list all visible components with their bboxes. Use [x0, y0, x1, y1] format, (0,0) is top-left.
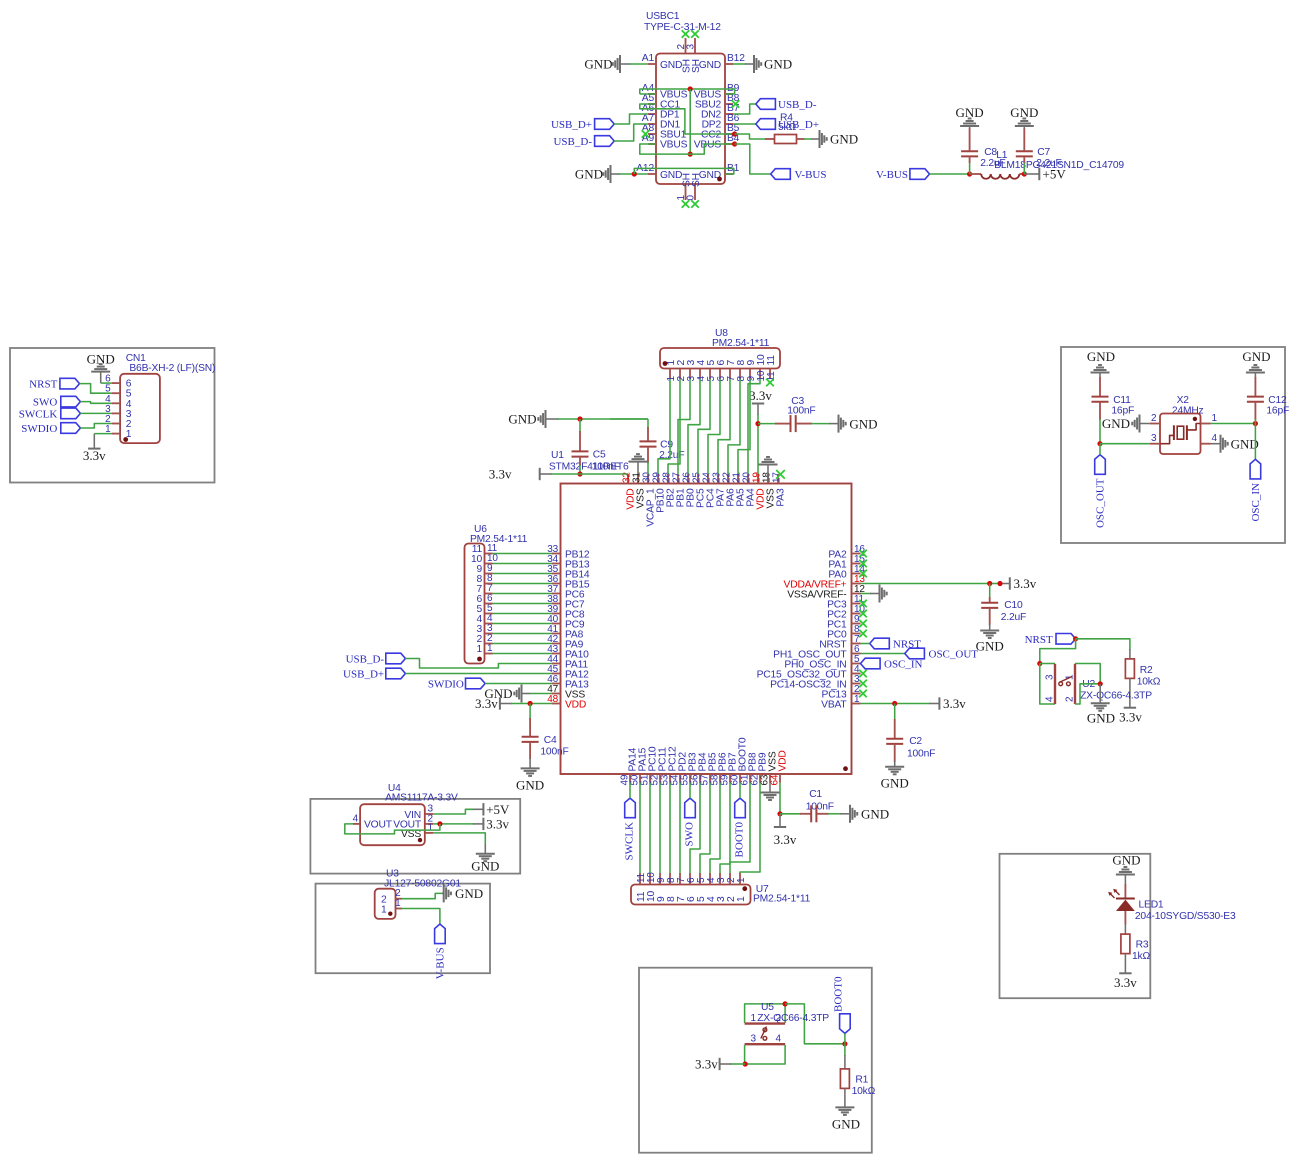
wire U5 top loop — [745, 1004, 786, 1023]
no-connect SH1 — [682, 200, 690, 208]
power symbol GND at B12 — [754, 55, 792, 73]
power symbol GND on U1 pin 31 — [629, 454, 648, 474]
pushbutton U5 ZX-QC66-4.3TP — [745, 1002, 830, 1045]
svg-text:1: 1 — [1212, 413, 1218, 424]
wire A12 to GND — [611, 173, 648, 175]
wire NRST to CN1 pin 5 — [80, 384, 113, 394]
svg-text:2.2uF: 2.2uF — [1001, 612, 1026, 623]
wire V-BUS to C8 node — [930, 173, 970, 175]
wire U6 pin 9 to U1 pin 35 — [493, 573, 553, 575]
power symbol GND at R4 — [820, 130, 859, 148]
svg-text:1: 1 — [428, 823, 434, 834]
frame boot box — [639, 968, 872, 1153]
svg-text:GND: GND — [764, 57, 792, 72]
net flag NRST (CN1) — [29, 378, 79, 390]
svg-text:3.3v: 3.3v — [1014, 576, 1037, 591]
pin-1 marker U7 — [742, 886, 747, 891]
svg-text:R1: R1 — [855, 1075, 868, 1086]
junction VBUS bottom — [688, 152, 693, 157]
junction A12 — [632, 171, 637, 176]
wire U4 VSS to GND — [433, 833, 485, 854]
svg-text:GND: GND — [1231, 437, 1259, 452]
no-connect A8 — [642, 130, 650, 138]
pin-1 marker U4 — [418, 838, 422, 842]
svg-text:5: 5 — [476, 604, 482, 615]
svg-text:2: 2 — [1065, 696, 1076, 702]
wire U8 pin 10 to U1 pin 20 — [748, 379, 760, 474]
svg-text:NRST: NRST — [1025, 634, 1053, 646]
svg-text:10: 10 — [646, 872, 657, 883]
svg-text:GND: GND — [830, 132, 858, 147]
power symbol 3.3v at VBAT — [939, 696, 966, 711]
net flag OSC_OUT (crystal) — [1095, 455, 1107, 528]
wire OSC_OUT node to X2 pin 3 — [1100, 443, 1150, 445]
net flag SWCLK (MCU) — [624, 798, 636, 860]
wire U4 VOUT to 3.3v — [433, 823, 483, 825]
pin header U6 PM2.54-1*11 — [465, 524, 528, 664]
svg-text:0: 0 — [686, 195, 697, 201]
wire R2 to 3.3v — [1129, 678, 1131, 707]
svg-text:USB_D-: USB_D- — [346, 654, 385, 666]
wire U3 pin1 to V-BUS — [402, 909, 440, 925]
no-connect U1 pin 8 — [859, 630, 867, 638]
power symbol GND on U1 pin 18 — [759, 457, 778, 482]
wire U1 pin 62 to U7 pin 1 — [740, 783, 760, 874]
svg-text:GND: GND — [508, 412, 536, 427]
svg-text:2: 2 — [726, 877, 737, 883]
junction C8 node — [967, 171, 972, 176]
svg-text:USBC1: USBC1 — [646, 11, 680, 22]
wire U1 pin 61 to U7 pin 2 — [730, 783, 750, 874]
svg-text:9: 9 — [476, 564, 482, 575]
svg-text:4: 4 — [1045, 696, 1056, 702]
junction C1 node — [777, 811, 782, 816]
wire VBUS A4-B9 — [640, 89, 735, 94]
wire SWO to CN1 pin 4 — [80, 402, 112, 404]
crystal X2 24MHz — [1150, 395, 1218, 454]
net flag SWO (MCU) — [684, 798, 696, 846]
svg-text:B12: B12 — [727, 53, 745, 64]
inductor L1 BLM18PG421SN1D_C14709 — [970, 150, 1125, 179]
wire U6 pin 11 to U1 pin 33 — [493, 553, 553, 555]
svg-text:1: 1 — [476, 644, 482, 655]
wire VDDA to 3.3v — [861, 583, 1010, 585]
svg-text:1kΩ: 1kΩ — [1132, 951, 1150, 962]
capacitor C8 2.2uF — [961, 126, 1005, 174]
svg-text:4: 4 — [487, 613, 493, 624]
net flag USB_D+ (right) — [756, 119, 819, 131]
svg-text:SWO: SWO — [33, 396, 58, 408]
svg-text:GND: GND — [660, 170, 682, 181]
svg-text:GND: GND — [1010, 105, 1038, 120]
svg-text:VBAT: VBAT — [821, 699, 847, 710]
svg-text:X2: X2 — [1177, 395, 1190, 406]
net flag OSC_OUT (MCU) — [905, 648, 978, 660]
no-connect SH0 — [691, 200, 699, 208]
svg-text:C8: C8 — [984, 147, 997, 158]
svg-text:C7: C7 — [1037, 147, 1050, 158]
junction U5 top node — [783, 1001, 788, 1006]
svg-text:C11: C11 — [1113, 395, 1131, 406]
svg-text:GND: GND — [956, 105, 984, 120]
power symbol 3.3v below R2 — [1119, 708, 1142, 725]
svg-text:GND: GND — [575, 167, 603, 182]
power symbol GND below R1 — [832, 1107, 860, 1131]
svg-text:5: 5 — [126, 389, 132, 400]
frame LED box — [1000, 854, 1151, 998]
power symbol GND at A12 — [575, 165, 611, 183]
svg-text:SH: SH — [691, 173, 702, 187]
svg-text:7: 7 — [476, 584, 482, 595]
svg-text:64: 64 — [770, 774, 781, 785]
junction pin19 3.3v node — [755, 421, 760, 426]
wire X2 pin 2 to GND — [1140, 423, 1150, 425]
svg-text:USB_D+: USB_D+ — [343, 669, 384, 681]
wire pin48 VDD to 3.3v — [500, 703, 552, 705]
svg-text:GND: GND — [516, 778, 544, 793]
net flag OSC_IN (crystal) — [1250, 459, 1262, 521]
svg-text:3.3v: 3.3v — [486, 816, 509, 831]
power symbol GND above C7 — [1010, 105, 1038, 126]
svg-text:OSC_OUT: OSC_OUT — [929, 649, 979, 661]
svg-text:GND: GND — [976, 639, 1004, 654]
wire U1 pin 56 to U7 pin 6 — [690, 783, 700, 874]
power symbol GND right of C3 — [839, 415, 878, 433]
wire SWDIO to PA13 — [485, 683, 552, 685]
regulator U4 AMS1117A-3.3V — [353, 783, 458, 845]
svg-text:2: 2 — [726, 896, 737, 902]
svg-text:2: 2 — [126, 419, 132, 430]
no-connect U1 pin 16 — [859, 550, 867, 558]
wire USB_D- to DN1 A7 — [614, 124, 648, 141]
no-connect U1 pin 4 — [859, 670, 867, 678]
wire SWDIO to CN1 pin 2 — [80, 424, 112, 429]
svg-text:16pF: 16pF — [1111, 406, 1134, 417]
wire U6 pin 2 to U1 pin 42 — [493, 643, 553, 645]
svg-text:4: 4 — [706, 896, 717, 902]
svg-text:AMS1117A-3.3V: AMS1117A-3.3V — [385, 793, 458, 804]
svg-text:3.3v: 3.3v — [695, 1057, 718, 1072]
svg-text:4: 4 — [776, 1034, 782, 1045]
no-connect U1 pin 14 — [859, 570, 867, 578]
svg-text:11: 11 — [636, 891, 647, 902]
wire U6 pin 3 to U1 pin 41 — [493, 633, 553, 635]
wire U1 pin 50 to U7 pin 11 — [639, 783, 641, 874]
svg-text:VBUS: VBUS — [660, 140, 688, 151]
svg-text:BOOT0: BOOT0 — [833, 976, 845, 1012]
svg-text:1: 1 — [395, 898, 401, 909]
net flag NRST (button) — [1025, 634, 1076, 646]
pin-1 marker U8 — [663, 361, 668, 366]
svg-text:2.2uF: 2.2uF — [1036, 158, 1061, 169]
svg-text:VBUS: VBUS — [694, 140, 722, 151]
svg-text:OSC_IN: OSC_IN — [884, 659, 923, 671]
svg-text:3: 3 — [716, 877, 727, 883]
svg-text:7: 7 — [676, 877, 687, 883]
wire L1 to +5V — [1024, 173, 1039, 175]
wire VBAT to 3.3v — [861, 703, 940, 705]
svg-text:1: 1 — [854, 694, 860, 705]
wire U5 bottom loop — [745, 1045, 786, 1064]
svg-text:9: 9 — [656, 896, 667, 902]
wire pin60 to BOOT0 flag — [739, 783, 741, 799]
pin header U8 PM2.54-1*11 — [660, 328, 780, 382]
svg-text:V-BUS: V-BUS — [795, 169, 827, 181]
junction button right node — [1098, 681, 1103, 686]
svg-text:GND: GND — [584, 57, 612, 72]
power symbol GND at CN1 — [87, 352, 115, 372]
net flag BOOT0 (U5) — [833, 976, 851, 1033]
wire 3.3v to U5 — [720, 1063, 746, 1065]
pin-1 marker U3 — [388, 912, 392, 916]
wire U1 pin 51 to U7 pin 10 — [649, 783, 651, 874]
svg-text:3.3v: 3.3v — [1114, 975, 1137, 990]
pin header U7 PM2.54-1*11 — [631, 872, 811, 905]
wire X2 pin 4 to GND — [1211, 443, 1221, 445]
svg-text:9: 9 — [487, 563, 493, 574]
svg-text:1: 1 — [736, 877, 747, 883]
svg-text:C9: C9 — [660, 440, 673, 451]
wire VBUS bottom loop — [640, 144, 735, 154]
junction OSC_OUT node — [1097, 441, 1102, 446]
svg-text:SH: SH — [691, 59, 702, 73]
power symbol GND at X2 pin 2 — [1102, 415, 1140, 433]
wire U1 pin 59 to U7 pin 3 — [720, 783, 730, 874]
wire NRST pin7 — [861, 643, 870, 645]
net flag V-BUS (U3) — [434, 924, 446, 979]
MCU U1 STM32F411RET6 — [547, 450, 865, 786]
wire NRST to R2 — [1076, 639, 1130, 659]
svg-text:3: 3 — [686, 44, 697, 50]
net flag NRST (MCU) — [870, 638, 922, 650]
junction C5 top — [577, 416, 582, 421]
wire LED1 to R3 — [1124, 923, 1126, 934]
resistor R2 10kOhm — [1125, 659, 1160, 688]
svg-text:3: 3 — [1045, 674, 1056, 680]
wire U6 pin 8 to U1 pin 36 — [493, 583, 553, 585]
svg-text:6: 6 — [126, 379, 132, 390]
power symbol GND at U1 pin 47 — [484, 685, 521, 703]
wire pin64 VDD down — [779, 783, 781, 814]
svg-text:10kΩ: 10kΩ — [1137, 677, 1161, 688]
net flag USB_D+ (MCU) — [343, 668, 405, 680]
power symbol 3.3v at CN1 — [83, 448, 106, 463]
wire GND to CN1 pin 6 — [101, 372, 112, 384]
power symbol +5V — [1039, 167, 1066, 182]
svg-text:11: 11 — [636, 872, 647, 883]
wire U8 pin 3 to U1 pin 27 — [678, 379, 690, 474]
junction U4 VOUT node — [437, 821, 442, 826]
svg-text:VOUT: VOUT — [364, 820, 393, 831]
wire B4 to V-BUS flag — [735, 144, 771, 174]
svg-text:10: 10 — [487, 553, 498, 564]
svg-text:USB_D-: USB_D- — [553, 136, 592, 148]
svg-text:6: 6 — [476, 594, 482, 605]
power symbol 3.3v below R3 — [1114, 973, 1137, 990]
wire U1 pin 54 to U7 pin 7 — [679, 783, 681, 874]
power symbol 3.3v on U1 pin 19 — [749, 388, 772, 404]
svg-text:1: 1 — [751, 1013, 757, 1024]
no-connect SH3 — [691, 30, 699, 38]
wire U8 pin 8 to U1 pin 22 — [728, 379, 740, 474]
junction VDDA node — [987, 581, 992, 586]
power symbol GND below C2 — [881, 767, 909, 791]
svg-text:7: 7 — [487, 583, 493, 594]
wire U5 to BOOT0 node — [785, 1004, 845, 1044]
power symbol GND at U3 — [444, 884, 483, 902]
wire VSSA to GND — [861, 593, 880, 595]
pin-1 marker USBC1 — [717, 177, 722, 182]
wire R4 to GND — [797, 138, 820, 140]
svg-text:R3: R3 — [1136, 940, 1149, 951]
resistor R3 1kOhm — [1121, 934, 1151, 962]
net flag SWDIO (CN1) — [21, 423, 80, 435]
svg-text:3.3v: 3.3v — [943, 696, 966, 711]
svg-text:3: 3 — [716, 896, 727, 902]
svg-text:GND: GND — [660, 60, 682, 71]
connector U3 JL127-50802G01 — [375, 869, 462, 919]
no-connect U8 pin 11 — [766, 379, 774, 387]
svg-text:3.3v: 3.3v — [1119, 710, 1142, 725]
svg-text:3: 3 — [476, 624, 482, 635]
no-connect U1 pin 11 — [859, 600, 867, 608]
svg-text:ZX-QC66-4.3TP: ZX-QC66-4.3TP — [757, 1013, 829, 1024]
capacitor C3 100nF — [775, 396, 838, 432]
svg-text:3: 3 — [751, 1034, 757, 1045]
svg-text:V-BUS: V-BUS — [434, 947, 446, 979]
no-connect U1 pin 17 PA3 — [776, 470, 785, 479]
svg-text:4: 4 — [706, 877, 717, 883]
power symbol GND at U1 pin 63 — [761, 783, 780, 801]
wire VDD node to 3.3v — [779, 814, 781, 827]
capacitor C11 16pF — [1092, 373, 1135, 444]
wire BOOT0 flag to node — [844, 1033, 846, 1043]
svg-text:1: 1 — [736, 896, 747, 902]
wire U8 pin 9 to U1 pin 21 — [738, 379, 750, 474]
svg-text:4: 4 — [476, 614, 482, 625]
svg-text:3.3v: 3.3v — [774, 832, 797, 847]
no-connect U1 pin 15 — [859, 560, 867, 568]
svg-text:GND: GND — [471, 859, 499, 874]
svg-text:V-BUS: V-BUS — [876, 169, 908, 181]
resistor R1 10kOhm — [840, 1069, 875, 1097]
connector USBC1 TYPE-C-31-M-12 — [636, 11, 745, 201]
svg-text:5: 5 — [487, 603, 493, 614]
svg-text:OSC_OUT: OSC_OUT — [1095, 478, 1107, 528]
junction C4 top — [528, 701, 533, 706]
power symbol GND below C10 — [976, 631, 1004, 654]
svg-text:7: 7 — [676, 896, 687, 902]
wire X2 pin 1 to OSC_IN node — [1211, 423, 1256, 425]
wire U1 pin 58 to U7 pin 4 — [710, 783, 720, 874]
wire B12 to GND — [733, 63, 754, 65]
power symbol 3.3v below pin64 — [774, 827, 797, 847]
svg-text:GND: GND — [1087, 349, 1115, 364]
wire pin55 to SWO flag — [689, 783, 691, 799]
power symbol GND right of C1 — [850, 805, 889, 823]
connector CN1 B6B-XH-2 (LF)(SN) — [105, 353, 215, 443]
wire U6 pin 7 to U1 pin 37 — [493, 593, 553, 595]
wire U8 pin 4 to U1 pin 26 — [688, 379, 700, 474]
svg-text:GND: GND — [861, 807, 889, 822]
junction CC2 B5 — [732, 131, 737, 136]
wire A1 to GND — [621, 63, 649, 65]
frame regulator box — [310, 799, 520, 874]
power symbol GND below U2 — [1087, 703, 1115, 725]
frame V-BUS box — [316, 884, 491, 974]
svg-text:GND: GND — [455, 886, 483, 901]
capacitor C1 100nF — [780, 789, 850, 822]
pin-1 marker CN1 — [123, 437, 128, 442]
svg-text:2: 2 — [776, 1013, 782, 1024]
svg-text:6: 6 — [686, 877, 697, 883]
svg-text:SWCLK: SWCLK — [19, 408, 58, 420]
svg-text:GND: GND — [1242, 349, 1270, 364]
wire 3.3v node to C3 — [758, 423, 776, 425]
svg-text:SWCLK: SWCLK — [624, 822, 636, 861]
svg-text:6: 6 — [686, 896, 697, 902]
power symbol 3.3v at U4 — [483, 816, 509, 831]
power symbol GND left of U1 — [508, 410, 545, 428]
svg-text:SWDIO: SWDIO — [428, 679, 464, 691]
net flag SWCLK (CN1) — [19, 408, 81, 420]
power symbol GND at VSSA — [880, 585, 887, 603]
power symbol GND below C4 — [516, 768, 544, 792]
net flag SWO (CN1) — [33, 396, 81, 408]
svg-text:3: 3 — [487, 623, 493, 634]
svg-text:3.3v: 3.3v — [475, 696, 498, 711]
svg-text:GND: GND — [1112, 853, 1140, 868]
svg-text:USB_D+: USB_D+ — [551, 119, 592, 131]
power symbol GND at U4 — [471, 854, 499, 874]
wire PH1_OSC_OUT to flag — [861, 653, 905, 655]
net flag V-BUS (input) — [876, 169, 930, 181]
wire USB_D+ to PA12 — [405, 673, 552, 675]
wire U8 pin 7 to U1 pin 23 — [718, 379, 730, 474]
power symbol GND above C12 — [1242, 349, 1270, 373]
wire 3.3v to CN1 pin 1 — [94, 434, 112, 449]
svg-text:A1: A1 — [642, 53, 655, 64]
svg-text:4: 4 — [1212, 433, 1218, 444]
power symbol 3.3v left of U1 — [489, 467, 540, 482]
svg-text:3.3v: 3.3v — [749, 388, 772, 403]
no-connect U1 pin 10 — [859, 610, 867, 618]
wire U8 pin 2 to U1 pin 28 — [668, 379, 680, 474]
pushbutton U2 ZX-QC66-4.3TP — [1045, 664, 1153, 704]
svg-text:1: 1 — [487, 643, 493, 654]
power symbol 3.3v at VDDA — [1010, 576, 1037, 591]
wire R3 to 3.3v — [1124, 954, 1126, 974]
svg-text:PA3: PA3 — [776, 488, 787, 507]
capacitor C7 2.2uF — [1016, 126, 1062, 174]
power symbol GND above C8 — [956, 105, 984, 126]
wire 3.3v row y474 — [540, 473, 628, 475]
frame CN1 box — [10, 348, 215, 483]
wire A12 to B1 — [634, 168, 734, 174]
wire U6 pin 10 to U1 pin 34 — [493, 563, 553, 565]
svg-text:10: 10 — [471, 554, 483, 565]
svg-text:1: 1 — [381, 904, 387, 915]
svg-text:PM2.54-1*11: PM2.54-1*11 — [753, 894, 811, 905]
wire VBUS center vertical — [689, 89, 691, 154]
wire U1 pin 57 to U7 pin 5 — [700, 783, 710, 874]
svg-text:GND: GND — [1087, 711, 1115, 726]
svg-text:6: 6 — [487, 593, 493, 604]
svg-text:GND: GND — [881, 776, 909, 791]
svg-text:16pF: 16pF — [1266, 406, 1289, 417]
junction VBAT node — [892, 701, 897, 706]
capacitor C10 2.2uF — [981, 584, 1026, 631]
